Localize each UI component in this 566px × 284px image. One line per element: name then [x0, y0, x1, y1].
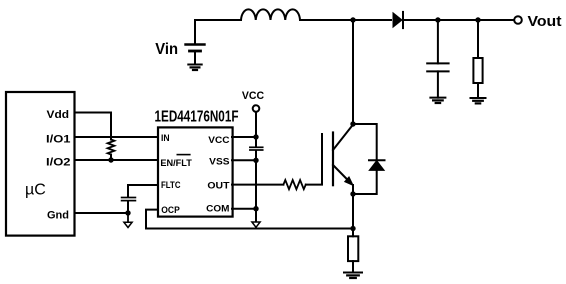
transistor Q1 IGBT — [332, 133, 334, 186]
node collector — [350, 121, 355, 126]
wire shunt to ground — [352, 261, 354, 272]
wire Gnd from microcontroller — [75, 212, 128, 214]
svg-text:EN/FLT: EN/FLT — [160, 158, 192, 168]
node emitter — [350, 191, 355, 196]
diode D2 freewheel branch — [353, 124, 377, 160]
ground under Vin battery — [188, 64, 201, 66]
wire VCC vertical — [255, 112, 257, 148]
wire battery to ground — [194, 51, 196, 65]
wire resistor to ground — [477, 83, 479, 98]
wire I/O1 to IN — [75, 136, 158, 138]
wire I/O2 to EN/FLT — [75, 159, 158, 161]
inductor L1 — [241, 9, 300, 20]
wire COM pin stub — [232, 208, 256, 210]
svg-text:µC: µC — [25, 182, 46, 199]
wire capacitor to ground — [437, 71, 439, 97]
diode D1 boost — [393, 13, 402, 27]
Vout terminal circle — [514, 16, 522, 24]
wire OCP to common rail — [146, 210, 353, 229]
svg-text:I/O2: I/O2 — [46, 156, 71, 168]
COM arrow under Gnd node — [127, 213, 129, 223]
wire emitter — [352, 185, 354, 194]
ground under shunt resistor — [344, 272, 362, 274]
capacitor C-VCC decoupling — [250, 146, 263, 148]
wire collector from top rail — [352, 20, 354, 124]
svg-text:1ED44176N01F: 1ED44176N01F — [155, 109, 239, 126]
node common rail / shunt — [350, 226, 355, 231]
resistor R-gate (zigzag) — [283, 180, 305, 189]
svg-text:Vin: Vin — [155, 41, 178, 58]
node COM — [253, 206, 258, 211]
resistor R pull-up (vertical zigzag) — [108, 140, 115, 155]
wire VCC pin stub — [232, 136, 256, 138]
VCC terminal circle — [253, 105, 260, 112]
wire emitter to common rail — [352, 194, 354, 236]
node collector branch on top rail — [350, 17, 355, 22]
wire Vdd to pull-up resistor — [75, 113, 111, 140]
svg-text:Gnd: Gnd — [47, 209, 69, 221]
pin label EN/FLT overline — [177, 154, 190, 156]
wire inductor to diode — [300, 19, 391, 21]
wire load resistor branch — [477, 20, 479, 58]
wire gate lead — [306, 134, 322, 185]
wire FLTC to capacitor — [128, 185, 158, 198]
svg-text:VSS: VSS — [209, 156, 229, 166]
wire top rail from Vin to inductor — [195, 20, 241, 44]
wire diode to Vout terminal — [403, 19, 514, 21]
svg-text:OCP: OCP — [161, 205, 180, 215]
gate driver IC box U1 — [158, 127, 233, 216]
capacitor C-out — [427, 62, 448, 64]
svg-text:OUT: OUT — [207, 180, 230, 190]
node pull-up to I/O2 — [108, 157, 113, 162]
wire OUT to gate resistor — [232, 184, 283, 186]
svg-text:COM: COM — [206, 204, 229, 214]
resistor R-shunt — [348, 236, 358, 261]
capacitor C-FLTC — [122, 197, 136, 199]
wire VSS/COM vertical to arrow — [255, 150, 257, 222]
svg-text:Vout: Vout — [528, 13, 562, 30]
ground under output capacitor — [430, 97, 445, 99]
wire VSS pin stub — [232, 159, 256, 161]
node VCC — [253, 134, 258, 139]
battery V1 Vin — [186, 43, 205, 45]
wire capacitor to Gnd node — [127, 201, 129, 213]
svg-text:Vdd: Vdd — [47, 109, 70, 121]
svg-text:FLTC: FLTC — [161, 180, 181, 190]
node Gnd junction — [125, 210, 130, 215]
node output capacitor tap — [435, 17, 440, 22]
svg-text:IN: IN — [161, 133, 170, 143]
resistor R-load — [473, 58, 482, 83]
node load resistor tap — [475, 17, 480, 22]
svg-text:VCC: VCC — [208, 135, 230, 145]
node VSS — [253, 158, 258, 163]
COM arrow to rail — [252, 222, 260, 227]
ground under load resistor — [471, 97, 486, 99]
microcontroller box — [6, 92, 75, 236]
wire output capacitor branch — [437, 20, 439, 63]
svg-text:VCC: VCC — [242, 90, 264, 102]
svg-text:I/O1: I/O1 — [46, 133, 71, 145]
